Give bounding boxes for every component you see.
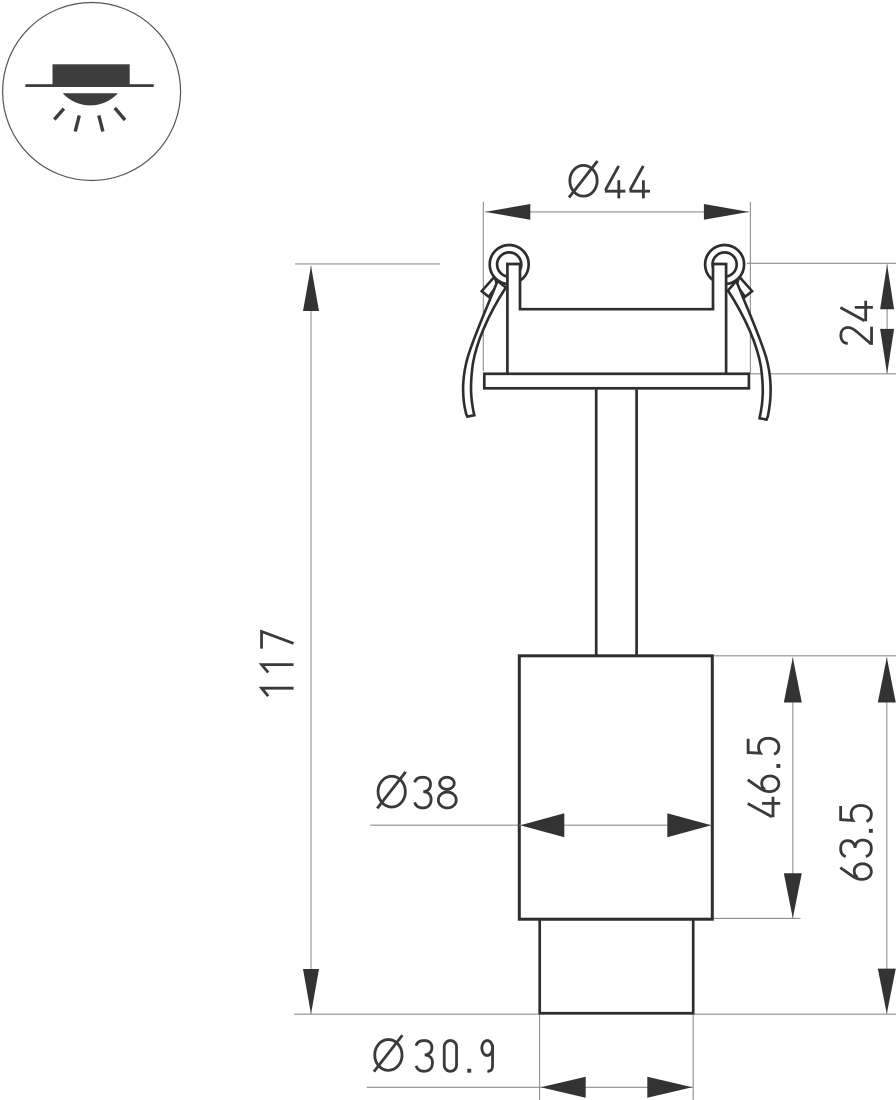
baseline / ground line [294, 1013, 896, 1015]
text 63.5 (rotated) [840, 806, 873, 880]
icon: light rays [54, 108, 125, 132]
icon: lamp dome [63, 93, 118, 105]
thin extension and dimension lines [294, 202, 896, 1100]
arrow Ø44 left [485, 204, 530, 220]
fixture: bottom cylinder [540, 919, 694, 1013]
extension line right of Ø44 [749, 202, 751, 373]
fixture: left ring inner [497, 252, 521, 276]
dimension line 117 [310, 266, 312, 1014]
extension line body bottom (46.5) [712, 917, 800, 919]
extension line left of Ø44 [482, 202, 484, 371]
text Ø30.9 [374, 1035, 493, 1073]
arrow 24 bottom [880, 329, 894, 374]
arrow 117 bottom [303, 969, 319, 1014]
text Ø38 [377, 772, 456, 809]
extension line body top (46.5/63.5) [712, 655, 896, 657]
arrow 24 top [880, 264, 894, 309]
arrow Ø44 right [704, 204, 749, 220]
dimension line Ø38 re-draw over body [519, 824, 711, 826]
fixture: right cup wall [713, 264, 726, 374]
extension line bottom-right of Ø30.9 [692, 1014, 694, 1100]
arrow 46.5 bottom [784, 873, 802, 918]
fixture: left spring clip arm [463, 281, 506, 417]
extension line bottom of 24 (flange top, to right edge) [749, 373, 896, 375]
fixture: main body [519, 656, 712, 919]
fixture: right spring clip arm [728, 281, 771, 420]
arrow Ø30.9 left [541, 1077, 586, 1098]
arrow 63.5 top [878, 658, 896, 703]
extension line bottom-left of Ø30.9 [539, 1014, 541, 1100]
dimension line 63.5 [886, 658, 888, 1014]
fixture: flange [484, 374, 749, 389]
arrow Ø38 right [667, 813, 711, 837]
fixture: left clip tab [482, 277, 498, 297]
dimension line 24 [886, 264, 888, 374]
fixture: left ring outer [490, 245, 529, 284]
extension line top of 24 (to right edge) [747, 262, 896, 264]
text 46.5 (rotated) [748, 738, 781, 817]
text Ø44 [569, 161, 650, 198]
fixture: stem [596, 390, 636, 656]
icon: ceiling line [25, 84, 153, 87]
arrowheads [303, 204, 896, 1098]
arrow Ø30.9 right [647, 1077, 692, 1098]
fixture: cup floor [519, 308, 715, 311]
icon: fixture body rectangle [53, 64, 130, 84]
fixture: right ring outer [705, 245, 744, 284]
dimension line Ø38 [370, 824, 711, 826]
fixture: right clip tab [737, 277, 753, 297]
fixture: right ring inner [713, 252, 737, 276]
arrow Ø38 left [520, 813, 564, 837]
arrow 117 top [303, 266, 319, 311]
dimension line 46.5 [792, 658, 794, 919]
dimension texts [262, 161, 873, 1073]
fixture: left cup wall [507, 264, 520, 374]
arrow 46.5 top [784, 658, 802, 703]
arrow 63.5 bottom [878, 969, 896, 1014]
dimension line Ø44 [485, 211, 749, 213]
extension line top of 117 [295, 263, 440, 265]
dimension line Ø30.9 [367, 1086, 694, 1088]
text 24 (rotated) [840, 301, 873, 344]
text 117 (rotated) [262, 632, 294, 697]
icon: recessed downlight symbol, circle [3, 3, 181, 181]
